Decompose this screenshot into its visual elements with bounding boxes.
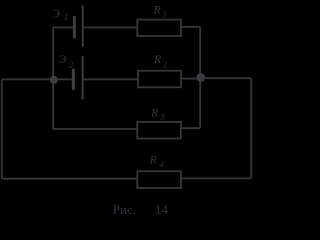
svg-text:R: R	[150, 106, 159, 120]
svg-text:1: 1	[64, 12, 69, 23]
svg-text:R: R	[153, 52, 162, 66]
svg-text:R: R	[153, 3, 162, 17]
svg-text:1: 1	[163, 8, 167, 18]
svg-text:Э: Э	[52, 7, 60, 21]
svg-text:R: R	[149, 153, 158, 167]
svg-text:Рис.: Рис.	[113, 202, 136, 217]
svg-text:14: 14	[155, 202, 169, 217]
svg-text:Э: Э	[59, 52, 67, 66]
svg-text:3: 3	[160, 112, 165, 122]
svg-text:2: 2	[69, 60, 74, 70]
